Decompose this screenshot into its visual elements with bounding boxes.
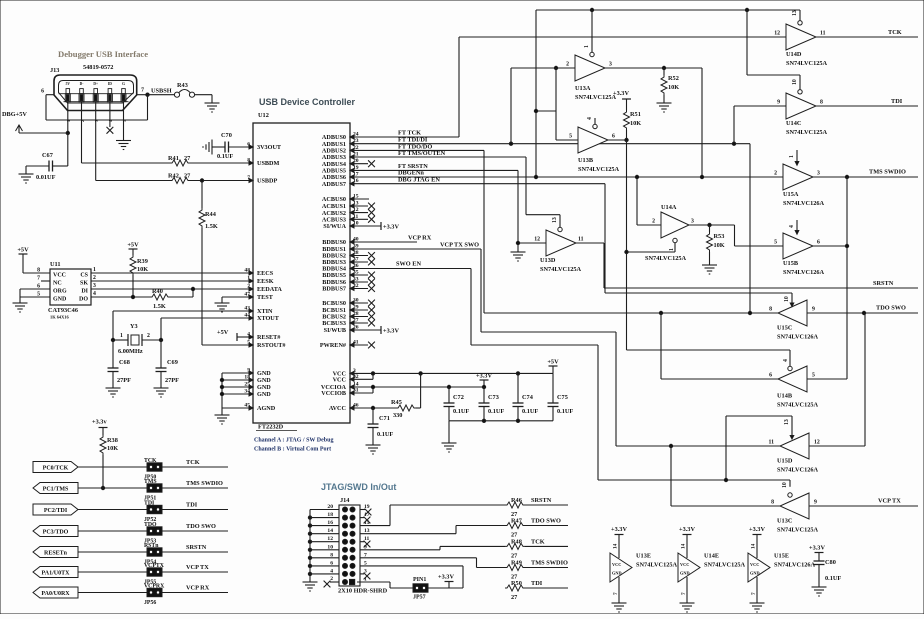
U12 ACBUS0 stub — [350, 198, 369, 200]
wire U14C input — [734, 105, 786, 107]
junction VCCIO rail caps — [447, 385, 450, 388]
svg-text:U15A: U15A — [783, 191, 799, 198]
wire TCK output — [816, 36, 918, 38]
wire J13 D- pin down — [81, 102, 83, 163]
wire J14 pin5 to R50 — [360, 565, 463, 567]
svg-text:RESET#: RESET# — [257, 334, 281, 341]
svg-text:+3.3V: +3.3V — [383, 224, 399, 231]
svg-text:0.1UF: 0.1UF — [217, 153, 233, 160]
wire TDI output — [816, 105, 918, 107]
ground at C68 — [112, 384, 114, 388]
wire net TDI — [162, 509, 228, 511]
svg-text:VCP RX: VCP RX — [408, 235, 432, 242]
junction EEDATA/R40 — [191, 287, 194, 290]
junction R39/DO — [131, 295, 134, 298]
svg-text:7: 7 — [613, 592, 619, 595]
svg-text:GND: GND — [680, 571, 690, 576]
svg-text:Y3: Y3 — [130, 323, 138, 330]
ground at C69 — [160, 384, 162, 388]
svg-text:PIN1: PIN1 — [413, 577, 426, 583]
svg-text:8: 8 — [820, 100, 823, 106]
spare gate U15E SN74LVC126A power pins — [748, 553, 770, 582]
svg-text:9: 9 — [777, 100, 780, 106]
wire TDO_SWO bus — [484, 312, 778, 314]
wire U14A output — [689, 224, 735, 226]
svg-text:SRSTN: SRSTN — [531, 497, 552, 504]
svg-text:EECS: EECS — [257, 270, 274, 277]
svg-text:0.1UF: 0.1UF — [557, 408, 573, 415]
svg-text:10: 10 — [782, 482, 788, 488]
spare gate U13E SN74LVC125A power pins — [610, 553, 632, 582]
svg-text:VCC: VCC — [53, 273, 66, 279]
svg-text:TCK: TCK — [888, 29, 902, 36]
svg-text:PC1/TMS: PC1/TMS — [43, 486, 69, 492]
J13 pin contact 5 (G) — [122, 89, 126, 94]
wire U14C input riser — [733, 106, 735, 144]
svg-text:2: 2 — [80, 120, 85, 122]
svg-text:USBDP: USBDP — [257, 178, 278, 185]
wire U13A input — [511, 67, 575, 69]
svg-text:12: 12 — [814, 440, 820, 446]
svg-text:JP56: JP56 — [144, 600, 156, 606]
svg-text:9: 9 — [814, 500, 817, 506]
wire J13 GND pin to ground — [123, 102, 125, 137]
svg-text:SN74LVC126A: SN74LVC126A — [777, 334, 819, 341]
svg-text:5: 5 — [774, 240, 777, 246]
svg-text:DBG JTAG EN: DBG JTAG EN — [398, 177, 440, 184]
ground at J14 — [309, 578, 311, 582]
svg-text:U14D: U14D — [786, 51, 802, 58]
svg-text:PA0/U0RX: PA0/U0RX — [41, 591, 70, 597]
junction DBGEN rail — [590, 8, 593, 11]
ground at C80 — [818, 583, 820, 587]
svg-text:4: 4 — [783, 359, 789, 362]
wire J13 VBUS pin to +5V node — [67, 102, 69, 133]
U12 right pin direction arrows — [350, 135, 354, 139]
svg-text:R38: R38 — [107, 437, 118, 444]
wire GND bus — [221, 373, 223, 408]
svg-text:27: 27 — [511, 552, 517, 559]
buffer U15D SN74LVC126A — [780, 433, 809, 459]
svg-text:VCCIOB: VCCIOB — [321, 390, 346, 397]
svg-text:3: 3 — [817, 171, 820, 177]
wire DO via R40 — [91, 296, 150, 298]
svg-text:GND: GND — [257, 384, 271, 391]
buffer U14A SN74LVC125A — [661, 212, 689, 238]
svg-text:U15C: U15C — [777, 325, 793, 332]
power +3.3V at SI/WUB — [350, 329, 381, 331]
J14 pin 2 no-connect — [330, 581, 339, 583]
svg-text:C73: C73 — [488, 394, 499, 401]
svg-text:Debugger USB Interface: Debugger USB Interface — [58, 49, 148, 59]
J14 pin19 no-connect — [360, 509, 365, 511]
svg-text:2: 2 — [652, 219, 655, 225]
svg-text:RESETn: RESETn — [44, 550, 68, 556]
svg-text:R43: R43 — [177, 82, 188, 89]
svg-text:PC2/TDI: PC2/TDI — [44, 508, 68, 514]
svg-text:16: 16 — [327, 520, 333, 526]
svg-text:1K 64X16: 1K 64X16 — [50, 315, 69, 320]
port flag PA0/U0RX — [33, 587, 78, 598]
svg-text:C68: C68 — [119, 359, 130, 366]
svg-text:SN74LVC125A: SN74LVC125A — [540, 266, 582, 273]
svg-text:SN74LVC125A: SN74LVC125A — [636, 562, 678, 569]
svg-text:VCP TX: VCP TX — [878, 498, 901, 505]
svg-text:R52: R52 — [668, 75, 679, 82]
svg-text:1: 1 — [93, 267, 96, 273]
wire FT_SRSTN — [350, 169, 518, 171]
power +3.3V at SI/WUA — [350, 225, 381, 227]
ground at R53 — [709, 261, 711, 265]
ground at U12 GND — [221, 411, 223, 415]
svg-text:BCBUS3: BCBUS3 — [322, 320, 346, 327]
svg-text:D+: D+ — [93, 82, 98, 86]
svg-text:1: 1 — [669, 248, 675, 251]
svg-text:12: 12 — [774, 31, 780, 37]
wire FT_TDO — [350, 149, 484, 151]
svg-text:TMS SWDIO: TMS SWDIO — [531, 560, 568, 567]
wire U15A enable stub — [796, 150, 798, 164]
svg-text:4: 4 — [789, 225, 795, 228]
svg-text:C72: C72 — [453, 394, 464, 401]
svg-text:ACBUS0: ACBUS0 — [322, 196, 346, 203]
svg-text:1.5K: 1.5K — [205, 223, 218, 230]
svg-text:10K: 10K — [107, 445, 118, 452]
svg-text:FT TDI/DI: FT TDI/DI — [398, 137, 428, 144]
svg-text:U14E: U14E — [704, 553, 719, 560]
svg-text:USBSH: USBSH — [151, 88, 172, 95]
wire FT_TMSOUTEN — [350, 156, 526, 158]
resistor R39 10K pull-up — [129, 248, 138, 250]
svg-text:C75: C75 — [557, 394, 568, 401]
svg-text:VCC: VCC — [612, 562, 621, 567]
svg-text:VCC: VCC — [680, 562, 689, 567]
wire AVCC — [350, 407, 396, 409]
junction +5V node at USB pin1 — [66, 131, 69, 134]
ground at R52 — [663, 99, 665, 103]
wire U14A input — [636, 177, 638, 225]
svg-text:10K: 10K — [668, 84, 679, 91]
svg-text:GND: GND — [612, 571, 622, 576]
svg-text:TDO SWO: TDO SWO — [876, 305, 906, 312]
power +5V on VCC rail — [549, 365, 558, 367]
svg-text:+5V: +5V — [217, 329, 229, 336]
svg-text:FT2232D: FT2232D — [258, 423, 284, 430]
wire VCP_TX_SWO — [350, 248, 481, 250]
svg-text:SWO EN: SWO EN — [396, 261, 421, 268]
wire EECS — [91, 272, 253, 274]
wire U14B output — [660, 313, 662, 379]
buffer U13C SN74LVC125A — [780, 493, 809, 519]
svg-text:U13C: U13C — [777, 518, 793, 525]
svg-text:+3.3V: +3.3V — [438, 574, 454, 581]
svg-text:SK: SK — [80, 281, 88, 287]
svg-text:XTIN: XTIN — [257, 308, 273, 315]
svg-text:R51: R51 — [630, 111, 641, 118]
wire TCK to U14D input — [459, 36, 786, 38]
svg-text:TDI: TDI — [891, 98, 903, 105]
svg-text:U15D: U15D — [777, 458, 793, 465]
svg-text:VCP TX: VCP TX — [186, 564, 209, 571]
svg-text:R44: R44 — [205, 211, 217, 218]
svg-text:SN74LVC125A: SN74LVC125A — [786, 129, 828, 136]
svg-text:PC0/TCK: PC0/TCK — [43, 465, 69, 471]
wire RESETn to jumper — [78, 551, 147, 553]
buffer U14D SN74LVC125A — [786, 24, 816, 50]
wire U14B enable — [627, 349, 791, 351]
svg-text:1: 1 — [584, 45, 590, 48]
svg-text:EESK: EESK — [257, 278, 274, 285]
svg-text:3: 3 — [94, 120, 99, 122]
wire U15B input — [735, 245, 784, 247]
svg-text:R53: R53 — [714, 233, 725, 240]
svg-text:U14B: U14B — [777, 393, 793, 400]
port flag PC1/TMS — [33, 483, 78, 494]
svg-text:JP57: JP57 — [413, 595, 426, 601]
svg-text:C70: C70 — [221, 132, 232, 139]
wire enable riser from U13B — [626, 140, 628, 350]
junction U13A input riser — [554, 66, 557, 69]
ground at TEST pin — [221, 299, 223, 303]
ground at R43 — [211, 99, 213, 103]
buffer U14B SN74LVC125A — [778, 366, 807, 392]
svg-text:0.01UF: 0.01UF — [36, 174, 56, 181]
svg-text:U11: U11 — [50, 261, 61, 268]
ground at U14E — [686, 599, 688, 603]
svg-text:6: 6 — [41, 89, 44, 95]
svg-text:10K: 10K — [630, 120, 641, 127]
svg-text:0.1UF: 0.1UF — [453, 408, 469, 415]
ground at U11 — [19, 289, 21, 299]
buffer U15B SN74LVC126A — [783, 233, 813, 259]
svg-text:27PF: 27PF — [117, 377, 131, 384]
junctions GND bus — [220, 378, 223, 381]
svg-text:2: 2 — [147, 333, 150, 339]
svg-text:SN74LVC126A: SN74LVC126A — [783, 269, 825, 276]
wire TMS_SWDIO output — [813, 176, 918, 178]
junction USBDP / R44 — [200, 179, 203, 182]
svg-text:3: 3 — [93, 283, 96, 289]
svg-text:GND: GND — [257, 377, 271, 384]
svg-text:2X10 HDR-SHRD: 2X10 HDR-SHRD — [338, 588, 388, 595]
svg-text:10K: 10K — [714, 242, 725, 249]
svg-text:5: 5 — [812, 373, 815, 379]
wire net TCK — [162, 466, 228, 468]
svg-text:+3.3V: +3.3V — [383, 328, 399, 335]
svg-text:14: 14 — [613, 543, 619, 549]
J13 pin contact 1 (5V) — [66, 89, 70, 94]
J13 pin 6 shield stub — [46, 94, 54, 96]
ground at J13 GND pin — [123, 137, 125, 141]
wire net TMS SWDIO — [162, 487, 228, 489]
wire U14C enable path — [746, 10, 748, 75]
wire R43 to ground — [195, 94, 212, 96]
wire J14 pin13 to R47 — [360, 533, 456, 535]
wire J14 pin1 to JP57 — [357, 581, 390, 583]
buffer U13D SN74LVC125A — [546, 230, 576, 256]
svg-text:AVCC: AVCC — [329, 405, 346, 412]
wire TDO riser right — [864, 313, 866, 446]
wire VCCIO rail — [350, 386, 484, 388]
junction U14A enable tee — [625, 250, 628, 253]
svg-text:VCC: VCC — [333, 377, 346, 384]
svg-text:C80: C80 — [825, 559, 836, 566]
svg-text:3V3OUT: 3V3OUT — [257, 144, 282, 151]
svg-text:0.1UF: 0.1UF — [488, 408, 504, 415]
svg-text:U13D: U13D — [540, 257, 556, 264]
ground at U13E — [618, 599, 620, 603]
svg-text:1: 1 — [66, 120, 71, 122]
svg-text:330: 330 — [393, 412, 402, 419]
svg-text:18: 18 — [327, 512, 333, 518]
svg-text:ADBUS7: ADBUS7 — [322, 181, 346, 188]
svg-text:+5V: +5V — [127, 242, 139, 249]
port flag PC3/TDO — [33, 526, 78, 537]
svg-text:12: 12 — [534, 237, 540, 243]
svg-text:TDO SWO: TDO SWO — [531, 518, 561, 525]
svg-text:6: 6 — [612, 134, 615, 140]
wire DBG_JTAG_EN — [350, 183, 605, 185]
svg-text:C67: C67 — [42, 152, 53, 159]
wire PC0/TCK to jumper — [78, 466, 147, 468]
svg-text:10: 10 — [792, 79, 798, 85]
U12 left pin direction arrows — [249, 145, 253, 149]
wire U14B input — [807, 378, 847, 380]
svg-text:SN74LVC126A: SN74LVC126A — [783, 200, 825, 207]
svg-text:TDI: TDI — [531, 580, 543, 587]
wire VCC rail — [350, 372, 553, 374]
wire PC3/TDO to jumper — [78, 530, 147, 532]
svg-text:EEDATA: EEDATA — [257, 286, 282, 293]
svg-text:4: 4 — [93, 291, 96, 297]
wire PC1/TMS to jumper — [78, 487, 147, 489]
U11 pin numbers and left stubs — [41, 280, 50, 282]
svg-text:CAT93C46: CAT93C46 — [48, 307, 78, 314]
svg-text:GND: GND — [257, 391, 271, 398]
svg-text:54819-0572: 54819-0572 — [83, 64, 113, 71]
svg-text:PA1/U0TX: PA1/U0TX — [42, 570, 71, 576]
svg-text:SN74LVC125A: SN74LVC125A — [578, 166, 620, 173]
svg-text:DBG+5V: DBG+5V — [2, 111, 27, 118]
svg-text:TMS SWDIO: TMS SWDIO — [186, 480, 223, 487]
svg-text:3: 3 — [609, 62, 612, 68]
svg-text:8: 8 — [771, 500, 774, 506]
svg-text:C74: C74 — [522, 394, 534, 401]
J13 pin contact 4 (ID) — [108, 89, 112, 94]
svg-text:0.1UF: 0.1UF — [825, 575, 841, 582]
buffer U13A SN74LVC125A — [575, 55, 605, 81]
svg-text:TCK: TCK — [531, 538, 545, 545]
wire EESK — [91, 280, 253, 282]
svg-text:J13: J13 — [50, 67, 59, 74]
wire FT_TCK — [350, 136, 459, 138]
svg-text:5: 5 — [37, 292, 40, 298]
svg-text:SN74LVC125A: SN74LVC125A — [704, 562, 746, 569]
svg-text:BDBUS0: BDBUS0 — [322, 239, 346, 246]
wire net VCP RX — [162, 592, 228, 594]
svg-text:NC: NC — [53, 281, 62, 287]
shield frame wire below J13 — [45, 95, 47, 120]
wire FT_TDI — [350, 143, 750, 145]
svg-text:G: G — [122, 82, 125, 86]
U14A enable bubble at bottom — [673, 238, 677, 242]
svg-text:FT TCK: FT TCK — [398, 130, 421, 137]
svg-text:1: 1 — [120, 333, 123, 339]
svg-text:13: 13 — [792, 10, 798, 16]
wire J14 pin15 to R46 — [360, 525, 390, 527]
wire U15D output — [616, 445, 780, 447]
wire PA1/U0TX to jumper — [78, 571, 147, 573]
buffer U15A SN74LVC126A — [783, 164, 813, 190]
svg-text:10: 10 — [784, 296, 790, 302]
svg-text:7: 7 — [751, 592, 757, 595]
svg-text:1.5K: 1.5K — [153, 303, 166, 310]
svg-text:SI/WUA: SI/WUA — [323, 223, 346, 230]
svg-text:10: 10 — [327, 544, 333, 550]
wire JP57 to +3.3V and R50 — [428, 587, 463, 589]
svg-text:14: 14 — [327, 528, 333, 534]
svg-text:2: 2 — [93, 275, 96, 281]
svg-text:5: 5 — [122, 120, 127, 122]
buffer U14C SN74LVC125A — [786, 93, 816, 119]
svg-text:7: 7 — [681, 592, 687, 595]
svg-text:CS: CS — [80, 273, 88, 279]
svg-text:14: 14 — [751, 543, 757, 549]
svg-text:27PF: 27PF — [165, 377, 179, 384]
svg-text:USBDM: USBDM — [257, 160, 280, 167]
svg-text:8: 8 — [330, 552, 333, 558]
wire U13C input VCP_TX — [809, 505, 918, 507]
svg-text:GND: GND — [750, 571, 760, 576]
svg-text:XTOUT: XTOUT — [257, 315, 280, 322]
svg-text:DO: DO — [79, 297, 88, 303]
junction R38/TMS — [101, 486, 104, 489]
svg-text:U15E: U15E — [774, 553, 789, 560]
svg-text:11: 11 — [769, 440, 775, 446]
ground left of C70 — [212, 146, 216, 148]
svg-text:TDO SWO: TDO SWO — [186, 523, 216, 530]
wire U13D output to SRSTN — [576, 242, 604, 244]
svg-text:GND: GND — [257, 370, 271, 377]
wire U13B output — [608, 139, 627, 141]
spare gate U14E SN74LVC125A power pins — [678, 553, 700, 582]
svg-text:SI/WUB: SI/WUB — [324, 327, 346, 334]
svg-text:PWREN#: PWREN# — [320, 342, 347, 349]
wire J14 pin7 to R49 — [360, 557, 477, 559]
junction VCC rail caps — [419, 372, 422, 375]
svg-text:GND: GND — [53, 297, 67, 303]
svg-text:SN74LVC125A: SN74LVC125A — [777, 527, 819, 534]
svg-text:DI: DI — [81, 289, 88, 295]
svg-text:13: 13 — [784, 419, 790, 425]
svg-text:RSTOUT#: RSTOUT# — [257, 342, 286, 349]
port flag RESETn — [33, 547, 78, 558]
svg-text:SN74LVC125A: SN74LVC125A — [645, 255, 687, 262]
svg-text:0.1UF: 0.1UF — [522, 408, 538, 415]
ground stub at U13D input — [517, 243, 519, 248]
svg-text:2: 2 — [774, 171, 777, 177]
svg-text:6.00MHz: 6.00MHz — [118, 348, 143, 355]
svg-text:3: 3 — [691, 219, 694, 225]
svg-text:SRSTN: SRSTN — [873, 280, 894, 287]
U12 left pin stubs — [222, 372, 253, 374]
svg-text:13: 13 — [552, 217, 558, 223]
svg-text:SRSTN: SRSTN — [186, 544, 207, 551]
svg-text:4: 4 — [330, 568, 333, 574]
svg-text:TMS SWDIO: TMS SWDIO — [869, 169, 906, 176]
svg-text:TDI: TDI — [186, 502, 198, 509]
svg-text:TCK: TCK — [186, 459, 200, 466]
